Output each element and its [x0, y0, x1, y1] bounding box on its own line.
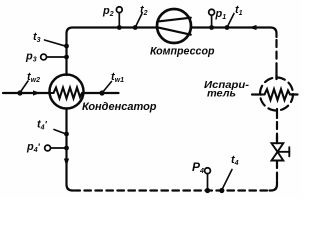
svg-text:tw1: tw1 [111, 71, 124, 84]
svg-text:t1: t1 [235, 4, 243, 17]
svg-text:p2: p2 [102, 5, 114, 18]
svg-text:тель: тель [207, 88, 236, 100]
svg-text:P4: P4 [192, 160, 204, 175]
svg-text:t4′: t4′ [37, 119, 48, 132]
svg-text:p1: p1 [215, 8, 227, 21]
svg-text:tw2: tw2 [27, 71, 40, 84]
svg-text:p4′: p4′ [26, 141, 41, 154]
svg-text:Конденсатор: Конденсатор [82, 101, 157, 113]
svg-text:t2: t2 [140, 4, 148, 17]
svg-text:Компрессор: Компрессор [150, 46, 215, 58]
svg-text:t3: t3 [33, 31, 41, 44]
svg-text:p3: p3 [25, 51, 37, 64]
svg-text:t4: t4 [231, 154, 239, 167]
